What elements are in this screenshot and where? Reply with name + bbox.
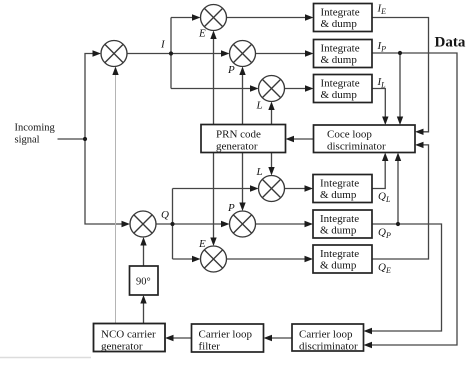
wire: PRN P code down [242, 153, 244, 204]
wire: I to L mixer [171, 88, 251, 90]
arrow QL into code discriminator bottom [382, 153, 388, 162]
arrow into E mixer bottom row [192, 256, 201, 262]
arrow QE into code discriminator right edge [415, 142, 424, 148]
wire: incoming signal lead [58, 138, 86, 140]
wire: L mixer to integrate block 3 [285, 88, 307, 90]
node: IP junction [398, 51, 402, 55]
arrow into integrate block 5 [305, 221, 314, 227]
svg-text:Integrate: Integrate [320, 178, 359, 190]
svg-text:L: L [256, 100, 263, 112]
wire: I to P mixer [171, 53, 222, 55]
mixer: Q carrier mixer [130, 211, 156, 237]
svg-text:Carrier loop: Carrier loop [199, 329, 253, 341]
mixer: E code mixer (Q row) [201, 246, 227, 272]
wire: PRN L code up [271, 109, 273, 125]
wire: input bus up to I mixer [85, 54, 93, 140]
artifact: faint scan line bottom left [0, 357, 91, 359]
arrow PRN code into P mixer bottom [239, 67, 245, 76]
svg-text:& dump: & dump [321, 89, 358, 101]
block: Code loop discriminator [314, 125, 416, 153]
wire: I mixer output to junction [127, 53, 171, 55]
arrow into P mixer bottom row [221, 221, 230, 227]
wire: Q split vertical [172, 189, 174, 260]
block: PRN code generator [201, 125, 286, 153]
arrow into L mixer top row [250, 85, 259, 91]
svg-text:E: E [198, 238, 206, 250]
block: Integrate & dump 2 (IP) [314, 40, 373, 68]
svg-text:Integrate: Integrate [321, 43, 360, 55]
svg-text:generator: generator [101, 341, 143, 353]
arrow into E mixer top row [192, 14, 201, 20]
svg-text:generator: generator [216, 141, 258, 153]
arrow PRN code into L mixer bottom [268, 102, 274, 111]
wire: IP output to carrier discriminator [372, 53, 458, 345]
svg-text:discriminator: discriminator [299, 341, 358, 353]
mixer: L code mixer (Q row) [259, 176, 285, 202]
arrow PRN code into E mixer bottom [210, 31, 216, 40]
arrow IP branch into code discriminator top [397, 117, 403, 126]
svg-text:P: P [227, 202, 235, 214]
wire: NCO carrier to I mixer (faint) [115, 72, 117, 324]
arrow into integrate block 1 [305, 14, 314, 20]
svg-text:Data: Data [435, 35, 466, 51]
mixer: P code mixer (I row) [230, 41, 256, 67]
wire: Q to E mixer [173, 258, 194, 260]
wire: code discriminator to PRN generator [293, 138, 314, 140]
wire: Q to P mixer [173, 223, 223, 225]
wire: E mixer to integrate block 6 [227, 258, 307, 260]
svg-text:& dump: & dump [320, 189, 357, 201]
arrow into integrate block 4 [305, 185, 314, 191]
node: Q junction [170, 222, 174, 226]
svg-text:90°: 90° [136, 277, 151, 288]
svg-text:& dump: & dump [320, 260, 357, 272]
arrow code discriminator into PRN generator [286, 136, 295, 142]
wire: PRN L code down [271, 153, 273, 169]
svg-text:P: P [227, 64, 235, 76]
wire: Q mixer output to junction [156, 223, 173, 225]
wire: IL down to code discriminator [372, 89, 385, 118]
svg-text:Integrate: Integrate [321, 78, 360, 90]
svg-text:Incoming: Incoming [15, 123, 56, 134]
wire: E mixer to integrate block 1 [227, 17, 307, 19]
svg-text:PRN code: PRN code [216, 129, 261, 141]
svg-text:& dump: & dump [321, 18, 358, 30]
arrow into integrate block 6 [305, 256, 314, 262]
arrow QP branch into code discriminator bottom [395, 153, 401, 162]
wire: input bus down to Q mixer [85, 139, 122, 224]
wire: P mixer to integrate block 5 [256, 223, 307, 225]
svg-text:Integrate: Integrate [320, 213, 359, 225]
block: Integrate & dump 6 (QE) [313, 245, 372, 273]
wire: I split vertical [170, 18, 172, 89]
block: Carrier loop discriminator [292, 324, 364, 351]
arrow PRN code into L mixer (Q row) top [268, 167, 274, 176]
block: 90 degree phase shift [130, 266, 159, 295]
wire: carrier filter to NCO [173, 337, 192, 339]
svg-text:Integrate: Integrate [321, 7, 360, 19]
arrow into integrate block 2 [305, 50, 314, 56]
arrow IE into code discriminator right edge [415, 129, 424, 135]
wire: QP output to carrier discriminator [372, 224, 442, 331]
arrow NCO into 90 degree box [140, 295, 146, 304]
svg-text:L: L [256, 166, 263, 178]
block: Integrate & dump 4 (QL) [313, 175, 372, 203]
wire: PRN P code up [242, 74, 244, 125]
mixer: I carrier mixer [101, 41, 127, 67]
wire: Q to L mixer [173, 188, 252, 190]
mixer: E code mixer (I row) [201, 5, 227, 31]
block: Integrate & dump 5 (QP) [313, 210, 372, 238]
node: QP junction [396, 222, 400, 226]
svg-text:Integrate: Integrate [320, 248, 359, 260]
wire: NCO to 90 degree box [143, 303, 145, 324]
svg-text:E: E [198, 28, 206, 40]
wire: QP branch up to code discriminator [397, 160, 399, 224]
wire: 90 degree box to Q mixer [143, 245, 145, 267]
arrow PRN code into P mixer (Q row) top [239, 203, 245, 212]
arrow into I mixer [93, 50, 102, 56]
svg-text:Coce loop: Coce loop [327, 129, 372, 141]
block: Carrier loop filter [192, 324, 264, 352]
svg-text:signal: signal [15, 135, 40, 146]
wire: P mixer to integrate block 2 [256, 53, 307, 55]
svg-text:& dump: & dump [321, 54, 358, 66]
svg-text:& dump: & dump [320, 225, 357, 237]
arrow NCO carrier into I mixer bottom [112, 67, 118, 76]
arrow into Q mixer [122, 221, 131, 227]
mixer: P code mixer (Q row) [230, 211, 256, 237]
wire: I to E mixer [171, 17, 193, 19]
block: Integrate & dump 3 (IL) [314, 75, 373, 103]
arrow QP into carrier discriminator [364, 328, 373, 334]
arrow into P mixer top row [221, 50, 230, 56]
svg-text:Carrier loop: Carrier loop [299, 329, 353, 341]
arrow into NCO generator [165, 335, 174, 341]
arrow 90 degree into Q mixer bottom [140, 237, 146, 246]
arrow into L mixer bottom row [250, 185, 259, 191]
node: incoming signal junction [83, 137, 87, 141]
node: I junction [169, 51, 173, 55]
wire: PRN E code down [213, 153, 215, 239]
wire: IP branch down to code discriminator [399, 53, 401, 118]
arrow into carrier filter [264, 335, 273, 341]
wire: QL up to code discriminator [372, 160, 385, 189]
wire: carrier discriminator to carrier filter [271, 337, 292, 339]
block: NCO carrier generator [94, 324, 166, 352]
wire: PRN E code up [213, 38, 215, 125]
svg-text:filter: filter [199, 341, 221, 353]
svg-text:NCO carrier: NCO carrier [101, 329, 156, 341]
arrow PRN code into E mixer (Q row) top [210, 238, 216, 247]
mixer: L code mixer (I row) [259, 76, 285, 102]
wire: L mixer to integrate block 4 [285, 188, 307, 190]
arrow IP into carrier discriminator [364, 342, 373, 348]
block: Integrate & dump 1 (IE) [314, 4, 373, 32]
svg-text:discriminator: discriminator [327, 141, 386, 153]
svg-text:Q: Q [161, 209, 169, 221]
arrow IL into code discriminator top [382, 117, 388, 126]
arrow into integrate block 3 [305, 85, 314, 91]
wire: IE output to code discriminator right [372, 18, 429, 132]
wire: QE output to code discriminator right [372, 145, 429, 259]
